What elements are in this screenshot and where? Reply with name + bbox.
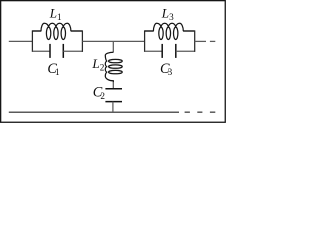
capacitor C2 xyxy=(105,89,122,102)
wire: tank1 top-left lead xyxy=(32,30,41,32)
wire: tank2 right vertical xyxy=(194,30,196,52)
wire: rail dash 2 xyxy=(197,111,202,113)
wire: coil to C2 xyxy=(112,82,114,88)
wire: output stub xyxy=(195,40,206,42)
inductor L2 xyxy=(105,52,122,82)
wire: bottom rail xyxy=(9,111,179,113)
wire: tank1 bottom-left lead xyxy=(32,50,50,52)
wire: tank2 bottom-right lead xyxy=(176,50,195,52)
wire: rail dash 1 xyxy=(185,111,190,113)
wire: tank1 bottom-right lead xyxy=(63,50,82,52)
wire: C2 to rail xyxy=(112,102,114,113)
wire: tank2 top-left lead xyxy=(145,30,154,32)
wire: tank2 top-right lead xyxy=(183,30,195,32)
wire: output dash xyxy=(210,40,215,42)
inductor L3 xyxy=(153,23,183,39)
wire: tank1 right vertical xyxy=(81,30,83,52)
capacitor C1 xyxy=(50,44,63,58)
border frame xyxy=(1,1,226,123)
wire: tank2 left vertical xyxy=(144,30,146,52)
capacitor C3 xyxy=(162,44,176,58)
wire: tank1 top-right lead xyxy=(71,30,83,32)
wire: input stub xyxy=(9,40,33,42)
wire: rail dash 3 xyxy=(210,111,215,113)
wire: shunt vertical from main xyxy=(112,41,114,52)
inductor L1 xyxy=(41,23,71,39)
wire: tank2 bottom-left lead xyxy=(145,50,163,52)
wire: main between tanks xyxy=(82,40,144,42)
wire: tank1 left vertical xyxy=(31,30,33,52)
